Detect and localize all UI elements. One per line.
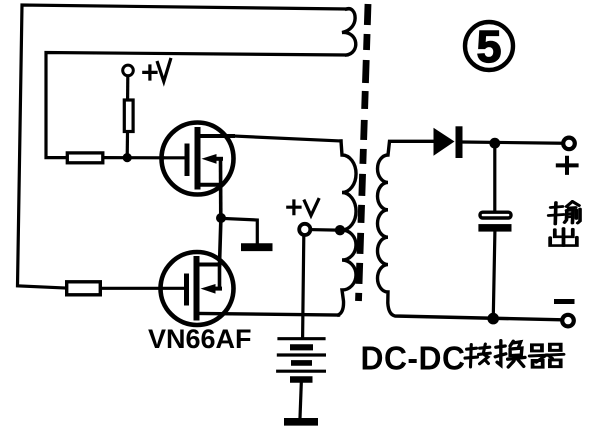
svg-text:5: 5	[476, 21, 501, 72]
svg-text:VN66AF: VN66AF	[148, 324, 252, 354]
svg-text:DC-DC: DC-DC	[361, 340, 466, 377]
